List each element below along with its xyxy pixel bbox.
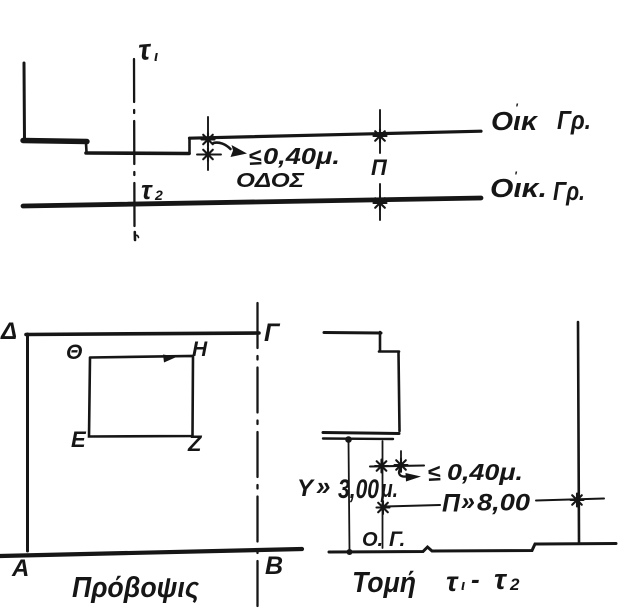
svg-text:≤: ≤	[248, 143, 262, 170]
svg-text:Γρ.: Γρ.	[557, 105, 591, 135]
svg-text:2: 2	[509, 575, 520, 594]
svg-text:Πρόβοψις: Πρόβοψις	[72, 572, 200, 604]
svg-text:0,40μ.: 0,40μ.	[263, 143, 340, 169]
svg-text:»: »	[461, 488, 475, 516]
svg-text:-: -	[471, 564, 480, 594]
svg-text:Η: Η	[192, 338, 208, 361]
svg-text:3,00: 3,00	[338, 474, 379, 504]
svg-text:Οικ.: Οικ.	[490, 173, 547, 203]
svg-text:Π: Π	[371, 155, 388, 180]
svg-text:ι: ι	[461, 577, 465, 594]
svg-text:Α: Α	[11, 555, 29, 582]
svg-text:≤: ≤	[427, 459, 441, 486]
svg-text:Ζ: Ζ	[187, 431, 203, 456]
svg-text:Δ: Δ	[0, 318, 17, 345]
svg-text:ΟΔΟΣ: ΟΔΟΣ	[236, 170, 305, 192]
svg-text:τ: τ	[446, 566, 459, 597]
svg-text:Γρ.: Γρ.	[553, 176, 585, 206]
svg-text:Π: Π	[442, 490, 461, 518]
svg-text:Ο.: Ο.	[362, 529, 383, 551]
svg-text:8,00: 8,00	[477, 490, 531, 517]
svg-text:Γ: Γ	[264, 319, 281, 347]
svg-text:0,40μ.: 0,40μ.	[447, 459, 523, 485]
svg-text:Θ: Θ	[66, 341, 82, 364]
svg-text:Υ: Υ	[297, 475, 315, 502]
svg-text:»: »	[316, 471, 330, 501]
svg-text:τ: τ	[141, 175, 153, 205]
svg-text:Ε: Ε	[71, 427, 87, 452]
svg-text:2: 2	[154, 187, 163, 203]
svg-text:μ.: μ.	[380, 476, 398, 503]
svg-text:Γ.: Γ.	[389, 528, 405, 551]
svg-text:ι: ι	[154, 48, 158, 65]
svg-text:Β: Β	[265, 552, 283, 580]
svg-text:Τομή: Τομή	[352, 567, 416, 599]
